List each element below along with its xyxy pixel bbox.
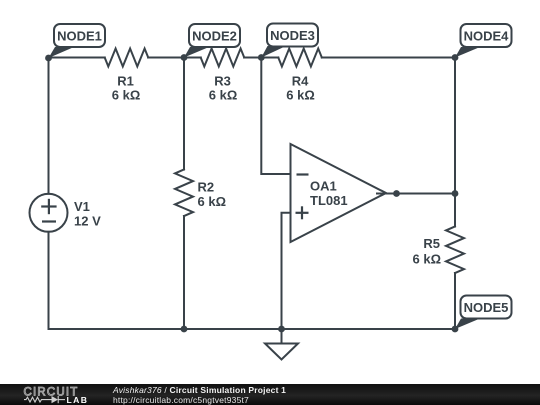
svg-text:R4: R4 — [292, 74, 309, 89]
svg-text:6 kΩ: 6 kΩ — [112, 87, 141, 102]
svg-text:R1: R1 — [117, 74, 134, 89]
svg-text:OA1: OA1 — [310, 179, 337, 194]
svg-text:NODE2: NODE2 — [192, 29, 237, 44]
svg-text:6 kΩ: 6 kΩ — [286, 87, 315, 102]
svg-text:6 kΩ: 6 kΩ — [198, 194, 227, 209]
svg-text:NODE1: NODE1 — [57, 29, 102, 44]
svg-text:NODE5: NODE5 — [464, 300, 509, 315]
svg-text:TL081: TL081 — [310, 193, 348, 208]
svg-text:6 kΩ: 6 kΩ — [413, 252, 442, 267]
svg-text:R2: R2 — [198, 180, 215, 195]
svg-text:LAB: LAB — [67, 395, 89, 405]
svg-text:R5: R5 — [423, 236, 440, 251]
svg-text:12 V: 12 V — [74, 214, 101, 229]
svg-text:NODE3: NODE3 — [270, 28, 315, 43]
svg-text:NODE4: NODE4 — [464, 29, 510, 44]
svg-text:6 kΩ: 6 kΩ — [209, 87, 238, 102]
svg-text:R3: R3 — [214, 74, 231, 89]
svg-text:V1: V1 — [74, 199, 90, 214]
